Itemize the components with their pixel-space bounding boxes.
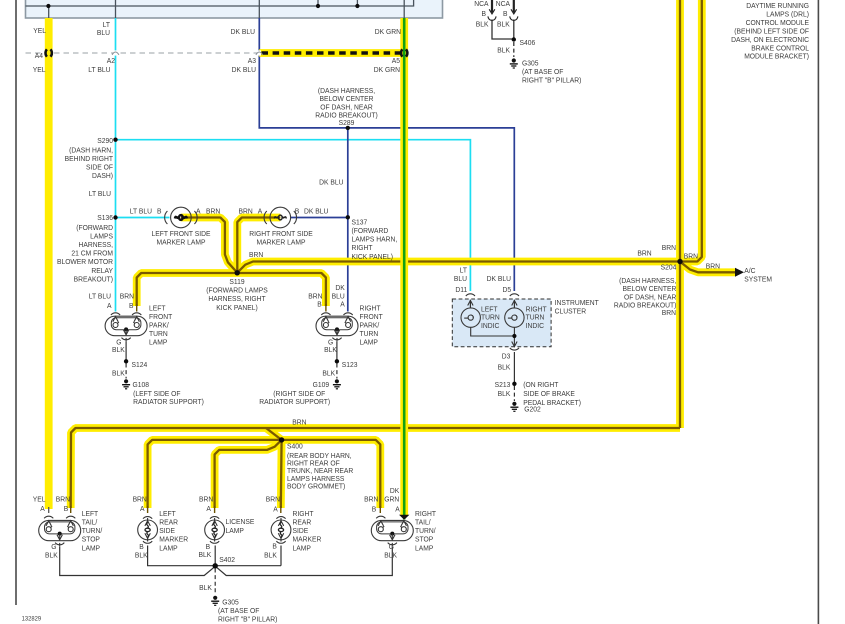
svg-text:B: B	[317, 300, 322, 308]
svg-text:MODULE BRACKET): MODULE BRACKET)	[744, 52, 809, 60]
svg-text:BLK: BLK	[112, 369, 125, 377]
svg-text:A: A	[395, 505, 400, 513]
svg-text:DK: DK	[335, 284, 345, 292]
svg-text:STOP: STOP	[82, 535, 100, 543]
svg-text:A: A	[40, 504, 45, 512]
svg-text:RIGHT: RIGHT	[352, 244, 374, 252]
svg-text:SIDE OF: SIDE OF	[86, 163, 114, 171]
svg-text:A: A	[258, 207, 263, 215]
svg-text:S123: S123	[342, 360, 358, 368]
svg-text:A4: A4	[35, 52, 43, 60]
svg-text:LT BLU: LT BLU	[89, 190, 111, 198]
svg-text:MARKER: MARKER	[159, 535, 188, 543]
svg-text:TURN: TURN	[360, 330, 379, 338]
svg-text:DASH, ON ELECTRONIC: DASH, ON ELECTRONIC	[731, 35, 809, 43]
svg-text:A: A	[196, 207, 201, 215]
svg-text:BRN: BRN	[56, 495, 70, 503]
svg-text:BRN: BRN	[206, 207, 220, 215]
svg-text:S402: S402	[219, 555, 235, 563]
svg-text:DASH): DASH)	[92, 172, 113, 180]
svg-text:BLK: BLK	[199, 584, 212, 592]
svg-text:FRONT: FRONT	[360, 313, 384, 321]
svg-text:PARK/: PARK/	[360, 321, 380, 329]
svg-text:BRN: BRN	[238, 207, 252, 215]
svg-text:LT BLU: LT BLU	[88, 66, 110, 74]
svg-text:LAMPS HARN,: LAMPS HARN,	[352, 235, 398, 243]
svg-text:A3: A3	[248, 57, 256, 65]
svg-text:BRN: BRN	[292, 418, 306, 426]
svg-text:BLK: BLK	[497, 46, 510, 54]
svg-text:BRN: BRN	[684, 252, 698, 260]
svg-text:SYSTEM: SYSTEM	[744, 275, 772, 283]
svg-text:(ON RIGHT: (ON RIGHT	[523, 381, 559, 389]
svg-text:S137: S137	[352, 218, 368, 226]
svg-text:DK GRN: DK GRN	[375, 28, 401, 36]
svg-text:S124: S124	[132, 360, 148, 368]
svg-text:MARKER: MARKER	[293, 535, 322, 543]
svg-text:RIGHT: RIGHT	[415, 510, 437, 518]
svg-text:TURN: TURN	[481, 313, 500, 321]
svg-text:INDIC: INDIC	[481, 322, 499, 330]
svg-text:(AT BASE OF: (AT BASE OF	[218, 607, 260, 615]
svg-text:CONTROL MODULE: CONTROL MODULE	[746, 19, 810, 27]
svg-text:LICENSE: LICENSE	[226, 518, 255, 526]
svg-text:REAR: REAR	[293, 518, 312, 526]
svg-text:DK BLU: DK BLU	[304, 207, 328, 215]
svg-text:A2: A2	[107, 57, 115, 65]
svg-text:BRN: BRN	[199, 495, 213, 503]
svg-text:S119: S119	[229, 278, 244, 286]
svg-text:A5: A5	[392, 57, 400, 65]
svg-text:DK BLU: DK BLU	[231, 28, 255, 36]
svg-text:BRN: BRN	[706, 262, 720, 270]
svg-text:RELAY: RELAY	[91, 266, 113, 274]
svg-text:BEHIND RIGHT: BEHIND RIGHT	[65, 155, 114, 163]
svg-text:B: B	[503, 10, 508, 18]
svg-text:LAMP: LAMP	[159, 544, 178, 552]
svg-text:LAMP: LAMP	[360, 338, 379, 346]
svg-text:LAMPS (DRL): LAMPS (DRL)	[766, 10, 809, 18]
svg-text:A: A	[206, 504, 211, 512]
svg-text:D11: D11	[455, 286, 467, 294]
svg-text:A: A	[340, 300, 345, 308]
svg-text:BREAKOUT): BREAKOUT)	[74, 275, 113, 283]
svg-text:YEL: YEL	[33, 66, 46, 74]
svg-text:RIGHT FRONT SIDE: RIGHT FRONT SIDE	[249, 229, 313, 237]
svg-text:(AT BASE OF: (AT BASE OF	[522, 68, 564, 76]
svg-text:G305: G305	[222, 598, 239, 606]
svg-text:BELOW CENTER: BELOW CENTER	[622, 285, 676, 293]
svg-text:B: B	[139, 543, 144, 551]
svg-text:GRN: GRN	[384, 495, 399, 503]
svg-text:NCA: NCA	[474, 0, 488, 8]
svg-text:LEFT: LEFT	[82, 510, 99, 518]
svg-text:TURN/: TURN/	[415, 527, 436, 535]
svg-text:LEFT: LEFT	[481, 305, 498, 313]
svg-text:RIGHT: RIGHT	[360, 304, 382, 312]
svg-text:B: B	[157, 207, 162, 215]
svg-text:(DASH HARNESS,: (DASH HARNESS,	[318, 86, 375, 94]
svg-text:SIDE OF BRAKE: SIDE OF BRAKE	[523, 390, 575, 398]
svg-text:DAYTIME RUNNING: DAYTIME RUNNING	[746, 2, 809, 10]
svg-text:LAMP: LAMP	[149, 338, 168, 346]
svg-text:RIGHT "B" PILLAR): RIGHT "B" PILLAR)	[522, 76, 581, 84]
svg-text:LAMP: LAMP	[82, 544, 101, 552]
svg-text:BRAKE CONTROL: BRAKE CONTROL	[751, 44, 809, 52]
svg-text:G109: G109	[313, 381, 330, 389]
svg-text:KICK PANEL): KICK PANEL)	[352, 252, 393, 260]
svg-text:S289: S289	[339, 119, 355, 127]
svg-text:D3: D3	[502, 352, 511, 360]
svg-text:REAR: REAR	[159, 518, 178, 526]
svg-text:S136: S136	[97, 213, 113, 221]
svg-text:(FORWARD: (FORWARD	[352, 227, 389, 235]
svg-text:(BEHIND LEFT SIDE OF: (BEHIND LEFT SIDE OF	[734, 27, 809, 35]
svg-text:G202: G202	[524, 405, 541, 413]
svg-text:BLK: BLK	[384, 551, 397, 559]
svg-text:FRONT: FRONT	[149, 313, 173, 321]
svg-text:A: A	[140, 504, 145, 512]
svg-text:BRN: BRN	[637, 249, 651, 257]
svg-text:BLK: BLK	[497, 20, 510, 28]
svg-text:SIDE: SIDE	[159, 527, 175, 535]
svg-text:HARNESS,: HARNESS,	[79, 241, 113, 249]
svg-text:B: B	[129, 302, 134, 310]
svg-text:RADIATOR SUPPORT): RADIATOR SUPPORT)	[133, 398, 204, 406]
svg-text:DK GRN: DK GRN	[374, 66, 400, 74]
svg-text:DK BLU: DK BLU	[487, 275, 511, 283]
svg-text:BLK: BLK	[198, 551, 211, 559]
svg-text:B: B	[295, 207, 300, 215]
svg-text:(LEFT SIDE OF: (LEFT SIDE OF	[133, 390, 181, 398]
svg-text:SIDE: SIDE	[293, 527, 309, 535]
svg-text:G108: G108	[133, 381, 150, 389]
svg-text:BRN: BRN	[120, 292, 134, 300]
svg-text:BLOWER MOTOR: BLOWER MOTOR	[57, 258, 113, 266]
svg-text:MARKER LAMP: MARKER LAMP	[256, 238, 305, 246]
svg-text:S290: S290	[97, 137, 113, 145]
svg-text:(FORWARD: (FORWARD	[76, 223, 113, 231]
svg-text:BRN: BRN	[266, 495, 280, 503]
svg-text:BLU: BLU	[454, 275, 467, 283]
svg-text:(DASH HARNESS,: (DASH HARNESS,	[619, 276, 676, 284]
svg-text:LEFT: LEFT	[149, 304, 166, 312]
svg-text:BLK: BLK	[498, 390, 511, 398]
svg-text:BELOW CENTER: BELOW CENTER	[320, 95, 374, 103]
svg-text:PARK/: PARK/	[149, 321, 169, 329]
svg-text:LAMP: LAMP	[226, 526, 245, 534]
svg-text:LAMP: LAMP	[415, 544, 434, 552]
svg-text:TAIL/: TAIL/	[82, 518, 98, 526]
svg-text:KICK PANEL): KICK PANEL)	[216, 303, 257, 311]
svg-text:LEFT FRONT SIDE: LEFT FRONT SIDE	[152, 229, 211, 237]
svg-text:CLUSTER: CLUSTER	[555, 307, 586, 315]
svg-text:DK: DK	[390, 487, 400, 495]
svg-text:132829: 132829	[22, 615, 42, 622]
svg-text:B: B	[272, 542, 277, 550]
svg-text:S204: S204	[661, 263, 677, 271]
svg-text:DK BLU: DK BLU	[319, 178, 343, 186]
svg-text:BRN: BRN	[364, 495, 378, 503]
svg-text:INSTRUMENT: INSTRUMENT	[555, 299, 600, 307]
svg-text:BLK: BLK	[112, 346, 125, 354]
svg-text:A: A	[273, 505, 278, 513]
svg-text:(DASH HARN,: (DASH HARN,	[69, 146, 113, 154]
svg-text:LT BLU: LT BLU	[89, 292, 111, 300]
svg-text:HARNESS, RIGHT: HARNESS, RIGHT	[208, 295, 266, 303]
svg-text:G305: G305	[522, 59, 539, 67]
svg-text:BRN: BRN	[662, 308, 676, 316]
svg-text:LAMP: LAMP	[293, 544, 312, 552]
svg-text:D5: D5	[502, 286, 511, 294]
svg-text:BODY GROMMET): BODY GROMMET)	[287, 482, 345, 490]
svg-text:TURN: TURN	[149, 330, 168, 338]
svg-text:RIGHT "B" PILLAR): RIGHT "B" PILLAR)	[218, 615, 277, 623]
svg-text:(FORWARD LAMPS: (FORWARD LAMPS	[206, 286, 268, 294]
svg-text:BLK: BLK	[498, 363, 511, 371]
svg-text:YEL: YEL	[33, 27, 46, 35]
svg-text:BRN: BRN	[662, 243, 676, 251]
svg-text:OF DASH, NEAR: OF DASH, NEAR	[624, 293, 676, 301]
svg-text:B: B	[481, 10, 486, 18]
svg-text:BLK: BLK	[322, 369, 335, 377]
svg-text:A: A	[107, 302, 112, 310]
svg-text:OF DASH, NEAR: OF DASH, NEAR	[320, 103, 372, 111]
svg-text:LEFT: LEFT	[159, 510, 176, 518]
svg-text:(RIGHT SIDE OF: (RIGHT SIDE OF	[273, 390, 326, 398]
svg-text:B: B	[64, 504, 69, 512]
svg-text:LAMPS: LAMPS	[90, 232, 113, 240]
svg-text:RADIATOR SUPPORT): RADIATOR SUPPORT)	[259, 398, 330, 406]
svg-text:TURN: TURN	[526, 313, 545, 321]
svg-text:MARKER LAMP: MARKER LAMP	[156, 238, 205, 246]
svg-text:G: G	[51, 543, 57, 551]
svg-text:S213: S213	[495, 381, 511, 389]
svg-text:S406: S406	[520, 39, 536, 47]
svg-text:21 CM FROM: 21 CM FROM	[71, 249, 113, 257]
svg-text:RIGHT: RIGHT	[526, 305, 548, 313]
svg-text:YEL: YEL	[33, 495, 46, 503]
svg-text:S400: S400	[287, 442, 303, 450]
svg-text:G: G	[389, 543, 395, 551]
svg-text:NCA: NCA	[496, 0, 510, 8]
svg-text:INDIC: INDIC	[526, 322, 544, 330]
svg-text:LT: LT	[460, 266, 468, 274]
svg-text:RIGHT: RIGHT	[293, 510, 315, 518]
svg-text:DK BLU: DK BLU	[232, 66, 256, 74]
svg-text:BLK: BLK	[324, 346, 337, 354]
svg-text:BLK: BLK	[135, 551, 148, 559]
svg-text:A/C: A/C	[744, 266, 755, 274]
svg-text:BRN: BRN	[133, 495, 147, 503]
svg-text:BLK: BLK	[264, 551, 277, 559]
svg-text:LT BLU: LT BLU	[130, 207, 152, 215]
svg-text:BLK: BLK	[45, 551, 58, 559]
svg-text:BLK: BLK	[476, 20, 489, 28]
svg-text:STOP: STOP	[415, 535, 433, 543]
svg-text:BRN: BRN	[249, 251, 263, 259]
svg-text:TURN/: TURN/	[82, 527, 103, 535]
svg-text:B: B	[372, 505, 377, 513]
svg-text:TAIL/: TAIL/	[415, 518, 431, 526]
svg-text:BLU: BLU	[97, 29, 110, 37]
